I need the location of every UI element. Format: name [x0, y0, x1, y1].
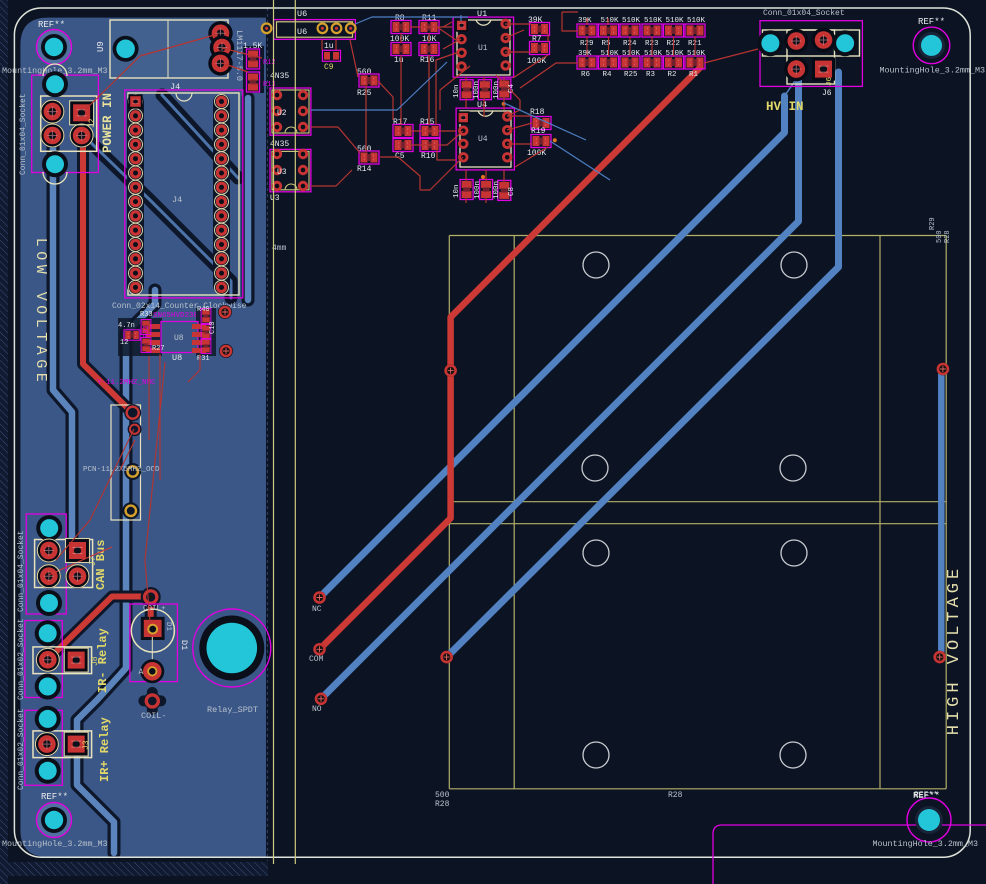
svg-text:D1: D1 — [164, 622, 172, 632]
svg-text:U6: U6 — [297, 27, 307, 37]
svg-text:R14: R14 — [357, 165, 372, 174]
svg-text:Conn_01x04_Socket: Conn_01x04_Socket — [19, 93, 28, 175]
svg-text:R17: R17 — [393, 118, 408, 127]
svg-text:510K: 510K — [666, 50, 685, 58]
svg-text:R10: R10 — [421, 152, 436, 161]
svg-text:R31: R31 — [197, 355, 210, 363]
svg-text:R28: R28 — [435, 800, 450, 809]
svg-text:J6: J6 — [822, 89, 832, 98]
svg-text:REF**: REF** — [913, 791, 940, 801]
svg-text:J8: J8 — [91, 656, 100, 666]
svg-text:510K: 510K — [644, 50, 663, 58]
svg-text:510K: 510K — [687, 50, 706, 58]
svg-text:NC: NC — [312, 605, 322, 614]
svg-text:1u: 1u — [324, 42, 334, 51]
svg-text:U2: U2 — [277, 109, 287, 118]
svg-text:U8: U8 — [172, 353, 182, 363]
svg-text:J3: J3 — [82, 740, 91, 750]
svg-text:10n: 10n — [453, 184, 461, 198]
svg-text:MountingHole_3.2mm_M3: MountingHole_3.2mm_M3 — [872, 839, 978, 849]
svg-text:Conn_01x02_Socket: Conn_01x02_Socket — [17, 618, 26, 700]
svg-text:R25: R25 — [357, 89, 372, 98]
svg-text:510K: 510K — [622, 50, 641, 58]
svg-text:Relay_SPDT: Relay_SPDT — [207, 705, 258, 715]
svg-text:R3: R3 — [646, 71, 656, 79]
svg-text:HV IN: HV IN — [766, 100, 804, 114]
svg-text:100n: 100n — [493, 81, 501, 99]
svg-text:12: 12 — [120, 339, 128, 347]
svg-text:MountingHole_3.2mm_M3: MountingHole_3.2mm_M3 — [2, 839, 108, 849]
svg-text:R5: R5 — [602, 40, 612, 48]
svg-text:D1: D1 — [179, 640, 189, 650]
svg-text:R8: R8 — [395, 14, 405, 23]
svg-text:Conn_01x02_Socket: Conn_01x02_Socket — [17, 708, 26, 790]
svg-text:39K: 39K — [578, 50, 592, 58]
svg-text:R6: R6 — [581, 71, 591, 79]
svg-text:100n: 100n — [493, 181, 501, 199]
svg-text:Conn_01x04_Socket: Conn_01x04_Socket — [17, 530, 26, 612]
svg-text:510K: 510K — [601, 50, 620, 58]
svg-text:REF**: REF** — [38, 20, 65, 30]
svg-text:LM1117-5.0: LM1117-5.0 — [234, 30, 244, 81]
svg-text:100n: 100n — [474, 181, 482, 199]
svg-text:1u: 1u — [394, 56, 404, 65]
svg-text:J6: J6 — [826, 76, 834, 86]
svg-text:500: 500 — [936, 230, 944, 243]
svg-text:C8: C8 — [508, 187, 516, 196]
svg-text:C9: C9 — [324, 63, 334, 72]
svg-text:R29: R29 — [929, 217, 937, 230]
svg-text:R15: R15 — [420, 118, 435, 127]
svg-text:LOW VOLTAGE: LOW VOLTAGE — [32, 238, 49, 387]
svg-text:R1: R1 — [689, 71, 699, 79]
svg-text:100n: 100n — [473, 81, 481, 99]
svg-text:MountingHole_3.2mm_M3: MountingHole_3.2mm_M3 — [879, 66, 985, 76]
svg-text:U3: U3 — [270, 194, 280, 203]
svg-text:R27: R27 — [152, 345, 165, 353]
svg-text:R32: R32 — [143, 325, 151, 338]
svg-text:U1: U1 — [478, 44, 488, 53]
svg-text:R33: R33 — [140, 311, 153, 319]
svg-text:U9: U9 — [96, 41, 106, 52]
svg-text:500: 500 — [435, 791, 450, 800]
svg-text:HIGH VOLTAGE: HIGH VOLTAGE — [945, 565, 964, 735]
svg-text:COM: COM — [309, 655, 324, 664]
svg-text:REF**: REF** — [918, 17, 945, 27]
svg-text:4mm: 4mm — [272, 244, 287, 253]
svg-text:COIL+: COIL+ — [143, 605, 166, 613]
svg-text:R2: R2 — [668, 71, 677, 79]
svg-text:J7: J7 — [89, 556, 98, 566]
svg-text:POWER IN: POWER IN — [101, 93, 115, 153]
svg-text:NO: NO — [312, 705, 322, 714]
svg-text:J4: J4 — [170, 82, 180, 92]
svg-text:R25: R25 — [624, 71, 638, 79]
svg-text:J4: J4 — [172, 195, 182, 205]
svg-text:U6: U6 — [297, 9, 307, 19]
svg-text:A: A — [139, 668, 144, 677]
svg-text:U8: U8 — [174, 334, 184, 343]
svg-text:Conn_01x04_Socket: Conn_01x04_Socket — [763, 9, 845, 18]
svg-text:R7: R7 — [532, 35, 542, 44]
svg-text:10n: 10n — [453, 84, 461, 98]
svg-text:IR+ Relay: IR+ Relay — [98, 717, 112, 782]
svg-text:R4: R4 — [603, 71, 613, 79]
svg-text:R28: R28 — [668, 791, 683, 800]
svg-text:REF**: REF** — [41, 792, 68, 802]
svg-text:U4: U4 — [478, 135, 488, 144]
svg-text:R40: R40 — [197, 306, 210, 314]
svg-text:R11: R11 — [422, 14, 437, 23]
svg-text:C10: C10 — [209, 321, 217, 334]
svg-text:R28: R28 — [944, 230, 952, 243]
svg-text:COIL-: COIL- — [141, 711, 167, 721]
svg-text:4.7n: 4.7n — [118, 322, 135, 330]
svg-text:Y-11.2MHZ_NMC: Y-11.2MHZ_NMC — [97, 379, 156, 387]
svg-text:R16: R16 — [420, 56, 435, 65]
svg-text:U3: U3 — [277, 168, 287, 177]
